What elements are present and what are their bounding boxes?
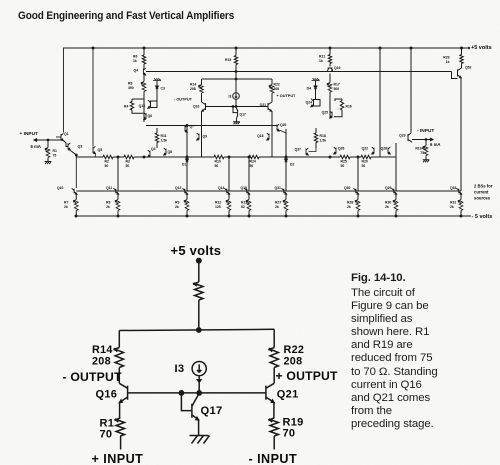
ground below R1 <box>47 158 49 162</box>
svg-text:C3: C3 <box>161 86 165 90</box>
transistor Q25 <box>330 111 332 118</box>
svg-text:+ INPUT: + INPUT <box>92 452 144 465</box>
svg-text:R9: R9 <box>175 201 179 205</box>
wire Q21 emitter down <box>273 402 275 418</box>
transistor Q13 with box <box>151 101 158 108</box>
node rail center junction <box>196 328 201 333</box>
wire mid bus y125 <box>146 125 277 127</box>
svg-text:Q24: Q24 <box>306 100 313 104</box>
svg-text:Q15: Q15 <box>241 186 248 190</box>
wire x330 to Q25 <box>329 92 331 118</box>
transistor Q29 <box>391 188 396 194</box>
transistor Q17 (top) <box>233 107 238 113</box>
svg-text:6 mA: 6 mA <box>31 144 42 149</box>
svg-text:Q13: Q13 <box>139 104 146 108</box>
transistor Q15 <box>244 188 249 194</box>
svg-text:Q12: Q12 <box>175 186 182 190</box>
wire +5V top rail <box>63 47 466 49</box>
svg-text:50: 50 <box>250 164 254 168</box>
wire x144 down to Q6 <box>143 92 145 123</box>
svg-text:R22: R22 <box>284 344 305 356</box>
transistor Q14 <box>224 188 229 194</box>
svg-text:Q7: Q7 <box>190 125 195 129</box>
svg-text:1,5k: 1,5k <box>320 138 327 142</box>
svg-text:+ OUTPUT: + OUTPUT <box>277 94 297 98</box>
wire Q17 emitter to ground <box>198 419 200 435</box>
wire R4 to Q6 base <box>132 110 143 113</box>
ground-flag above D3 <box>153 78 161 80</box>
transistor Q16 <box>119 383 127 401</box>
svg-text:1k: 1k <box>446 60 450 64</box>
resistor R17 500 <box>329 74 331 83</box>
wire R19 to input <box>273 436 275 450</box>
svg-text:62: 62 <box>241 205 245 209</box>
svg-text:50: 50 <box>215 164 219 168</box>
svg-text:R25: R25 <box>341 160 347 164</box>
svg-text:R19A: R19A <box>415 147 424 151</box>
svg-text:Q28: Q28 <box>381 146 388 150</box>
svg-text:R7: R7 <box>64 201 68 205</box>
svg-text:Q19: Q19 <box>334 66 341 70</box>
transistor Q8 <box>164 148 166 155</box>
wire Q16 emitter column <box>201 111 203 157</box>
node y157 bus dots <box>117 156 119 158</box>
svg-text:R6: R6 <box>133 55 137 59</box>
transistor Q7 <box>185 125 187 132</box>
wire inner box top edge <box>202 78 273 80</box>
svg-text:R14: R14 <box>92 344 113 356</box>
svg-text:208: 208 <box>274 87 280 91</box>
transistor Q10 <box>72 188 77 194</box>
ground symbol <box>190 436 210 444</box>
svg-text:R10: R10 <box>215 160 221 164</box>
svg-text:70: 70 <box>283 428 296 440</box>
transistor Q20 <box>277 124 279 131</box>
svg-text:- INPUT: - INPUT <box>249 452 298 465</box>
svg-text:50: 50 <box>105 164 109 168</box>
label -5 volts (bottom right) <box>468 215 471 217</box>
resistor R31 2k <box>460 194 462 199</box>
svg-text:1k: 1k <box>319 59 323 63</box>
svg-text:I3: I3 <box>229 94 232 98</box>
svg-text:R28: R28 <box>347 201 353 205</box>
svg-text:Q9: Q9 <box>203 134 208 138</box>
wire D3 down to Q13 <box>156 89 158 101</box>
svg-text:Q4: Q4 <box>151 147 156 151</box>
wire x396 column <box>395 143 397 191</box>
svg-text:+ INPUT: + INPUT <box>20 131 39 137</box>
svg-text:2k: 2k <box>106 205 110 209</box>
transistor Q9 <box>197 133 199 140</box>
wire x229 link <box>228 157 230 191</box>
wire R22 to Q21 <box>271 93 273 102</box>
node top-rail junction dots <box>92 47 94 49</box>
svg-text:208: 208 <box>284 356 303 368</box>
svg-text:Q21: Q21 <box>277 388 299 400</box>
svg-text:R18: R18 <box>320 134 326 138</box>
svg-text:2k: 2k <box>347 205 351 209</box>
resistor R7 2k <box>75 194 77 199</box>
wire x118 link <box>117 157 119 191</box>
diode D1 <box>186 157 188 159</box>
svg-text:Q25: Q25 <box>322 110 329 114</box>
resistor R8 390 <box>143 74 145 82</box>
wire D4 down to Q24 <box>315 89 317 100</box>
svg-text:+5 volts: +5 volts <box>471 45 492 51</box>
svg-text:R8: R8 <box>106 201 110 205</box>
node +5V terminal dot <box>196 258 201 263</box>
resistor R21 1k <box>329 48 331 55</box>
svg-text:Q3: Q3 <box>78 144 83 148</box>
wire R22 to Q21 <box>273 368 275 384</box>
svg-text:I3: I3 <box>175 363 185 375</box>
svg-text:+ OUTPUT: + OUTPUT <box>276 369 339 383</box>
transistor Q26 <box>334 147 336 154</box>
svg-text:Q14: Q14 <box>218 186 225 190</box>
svg-text:Q4: Q4 <box>134 69 139 73</box>
svg-text:50: 50 <box>126 164 130 168</box>
svg-text:R24: R24 <box>250 160 256 164</box>
svg-text:current: current <box>474 189 489 194</box>
transistor Q21 <box>266 383 274 401</box>
node bottom-rail junction dots <box>75 215 77 217</box>
resistor R27 2k <box>285 194 287 199</box>
resistor R4 <box>131 99 133 102</box>
svg-text:Q20: Q20 <box>280 123 287 127</box>
transistor Q24 with box <box>314 100 321 107</box>
transistor Q30 <box>353 188 358 194</box>
svg-text:Q30: Q30 <box>344 186 351 190</box>
wire x286 link <box>285 129 287 191</box>
resistor R20 50 <box>361 155 371 158</box>
svg-text:+5 volts: +5 volts <box>171 243 222 258</box>
wire right branch upper <box>273 329 275 347</box>
svg-text:Q1: Q1 <box>64 132 69 136</box>
svg-text:D2: D2 <box>290 163 294 167</box>
svg-text:D1: D1 <box>182 163 186 167</box>
transistor Q31 <box>281 188 286 194</box>
svg-text:R27: R27 <box>275 201 281 205</box>
wire x187 link <box>186 126 188 158</box>
svg-text:R19: R19 <box>283 416 304 428</box>
svg-text:R8: R8 <box>128 81 132 85</box>
svg-text:2k: 2k <box>175 205 179 209</box>
svg-text:Q16: Q16 <box>96 388 118 400</box>
resistor R22 208 <box>270 348 278 368</box>
wire Q21 emitter column <box>271 111 273 157</box>
wire Q4 base rail y72 <box>146 71 452 73</box>
svg-text:Q8: Q8 <box>168 150 173 154</box>
wire resistor to rail <box>198 300 200 331</box>
page running head <box>18 10 234 22</box>
figure caption <box>351 272 447 432</box>
transistor Q23 <box>408 133 412 142</box>
svg-text:208: 208 <box>190 87 196 91</box>
label +5 volts (top right) <box>466 47 470 49</box>
svg-text:R4: R4 <box>124 104 128 108</box>
node base-bus left dot <box>179 391 184 396</box>
svg-text:75: 75 <box>53 154 57 158</box>
svg-text:Q6: Q6 <box>148 114 153 118</box>
svg-text:Q31: Q31 <box>275 186 282 190</box>
diode D4 <box>315 81 317 85</box>
svg-text:Q37: Q37 <box>295 147 302 151</box>
transistor Q6 <box>144 113 146 120</box>
svg-text:Q5: Q5 <box>98 148 103 152</box>
wire +5V down <box>198 263 200 283</box>
svg-text:75: 75 <box>420 151 424 155</box>
transistor Q5 <box>93 146 95 153</box>
resistor R11 1.5k <box>156 128 158 133</box>
transistor Q4 (upper) <box>143 64 145 69</box>
wire y191 bus <box>76 190 461 192</box>
wire left branch upper <box>118 331 120 348</box>
ground below R19A <box>425 156 427 160</box>
svg-text:R20: R20 <box>362 160 368 164</box>
transistor Q1 <box>61 133 63 140</box>
transistor Q18 <box>267 133 269 140</box>
svg-text:- OUTPUT: - OUTPUT <box>174 97 193 101</box>
transistor Q11 <box>113 188 118 194</box>
transistor Q22 <box>372 147 374 154</box>
svg-text:Q22: Q22 <box>362 146 369 150</box>
current source I3 (top) <box>233 93 240 100</box>
svg-text:R21: R21 <box>319 55 325 59</box>
wire -5V bottom rail <box>75 215 468 217</box>
wire box base line <box>206 106 269 108</box>
wire right input lead with arrow <box>412 139 432 141</box>
svg-text:D4: D4 <box>307 86 311 90</box>
svg-text:Q23: Q23 <box>399 134 406 138</box>
transistor Q17 <box>192 394 199 419</box>
svg-text:Q52: Q52 <box>465 66 472 70</box>
resistor R1 75 (input, top) <box>47 140 49 148</box>
svg-text:Q21: Q21 <box>260 103 267 107</box>
wire left border <box>63 48 65 133</box>
transistor Q37 <box>306 148 308 155</box>
svg-text:208: 208 <box>92 356 111 368</box>
resistor R22 208 (top) <box>271 79 273 85</box>
svg-text:500: 500 <box>334 87 340 91</box>
wire R14 to Q16 <box>118 368 120 384</box>
svg-text:125: 125 <box>215 205 221 209</box>
resistor R14 208 (top) <box>201 79 203 85</box>
svg-text:sources: sources <box>474 195 491 200</box>
resistor R29 1k <box>461 48 463 55</box>
transistor Q4 lower <box>148 150 150 157</box>
wire x93 column <box>92 48 94 147</box>
wire x249 link <box>248 157 250 191</box>
current source I3 <box>192 362 206 376</box>
resistor R24 50 <box>249 155 259 158</box>
svg-text:2k: 2k <box>64 205 68 209</box>
svg-text:R11: R11 <box>161 134 167 138</box>
transistor Q21 (top) <box>268 102 272 111</box>
svg-text:2k: 2k <box>275 205 279 209</box>
svg-text:R16: R16 <box>346 104 352 108</box>
svg-text:Q17: Q17 <box>201 405 223 417</box>
ground below Q17 (top) <box>236 118 238 121</box>
wire R1 to input <box>120 436 122 450</box>
resistor R2 50 <box>103 155 113 158</box>
wire x380 column <box>379 48 381 157</box>
capacitor C3 / diode D3 <box>156 81 158 85</box>
svg-text:Q17: Q17 <box>240 113 247 117</box>
svg-text:6 mA: 6 mA <box>430 142 441 147</box>
resistor R10 50 <box>214 155 224 158</box>
transistor Q3 with base box <box>64 141 68 147</box>
svg-text:2 BSs for: 2 BSs for <box>474 183 493 188</box>
node input/R1 junction <box>47 139 49 141</box>
resistor R12 125 <box>228 194 230 199</box>
wire R16 to Q25 <box>334 110 342 117</box>
resistor R1 70 <box>116 418 124 436</box>
resistor R18 1.5k <box>315 128 317 133</box>
transistor Q16 (top) <box>202 102 206 111</box>
resistor R3 50 <box>124 155 134 158</box>
resistor R19A 75 <box>425 140 427 146</box>
ground-flag above D4 <box>312 78 320 80</box>
wire x411 column <box>410 48 412 133</box>
svg-text:Q16: Q16 <box>193 105 200 109</box>
resistor bias (unlabeled) <box>195 282 203 300</box>
wire x358 link <box>357 157 359 191</box>
svg-text:R15: R15 <box>225 58 231 62</box>
svg-text:50: 50 <box>362 164 366 168</box>
transistor Q12 <box>182 188 187 194</box>
wire top horizontal rail <box>119 329 274 330</box>
wire y157 bus segments <box>76 156 103 158</box>
wire I3 to node <box>235 99 237 106</box>
svg-text:R29: R29 <box>443 56 449 60</box>
resistor R28 2k <box>357 194 359 199</box>
wire Q17 base loop <box>181 393 192 411</box>
svg-text:Q33: Q33 <box>450 186 457 190</box>
wire R14 to Q16 <box>201 93 203 102</box>
resistor R8 2k <box>117 194 119 199</box>
svg-text:R13: R13 <box>241 201 247 205</box>
svg-text:- INPUT: - INPUT <box>417 128 434 134</box>
wire input to Q1 base <box>56 136 61 138</box>
node base-bus right dot <box>197 391 202 396</box>
wire base bus <box>128 392 266 394</box>
wire x461 long column <box>460 78 462 191</box>
svg-text:R31: R31 <box>450 201 456 205</box>
svg-text:R30: R30 <box>385 201 391 205</box>
wire + input lead with arrow <box>36 139 62 141</box>
svg-text:2k: 2k <box>450 205 454 209</box>
wire I3 to bus with arrow <box>198 376 200 393</box>
wire Q16 emitter down <box>119 402 121 418</box>
transistor Q19 <box>329 64 331 67</box>
resistor R25 50 <box>340 155 350 158</box>
svg-text:1k: 1k <box>133 59 137 63</box>
svg-text:R12: R12 <box>215 201 221 205</box>
svg-text:2k: 2k <box>385 205 389 209</box>
resistor R16 <box>341 99 343 101</box>
svg-text:R1: R1 <box>100 417 115 429</box>
resistor R14 208 <box>115 348 123 368</box>
wire Q52 base step <box>452 72 458 79</box>
svg-text:Q11: Q11 <box>106 186 112 190</box>
svg-text:- OUTPUT: - OUTPUT <box>63 370 123 384</box>
resistor R19 70 <box>270 418 278 436</box>
transistor Q28 <box>388 147 390 154</box>
svg-text:Q26: Q26 <box>338 146 345 150</box>
svg-text:R2: R2 <box>105 160 109 164</box>
svg-text:50: 50 <box>341 164 345 168</box>
wire column x76 down <box>75 157 77 188</box>
diode D2 <box>285 157 287 159</box>
svg-text:R1: R1 <box>53 149 57 153</box>
wire R15 down to box <box>235 65 237 93</box>
svg-text:390: 390 <box>128 86 134 90</box>
resistor R9 2k <box>186 194 188 199</box>
svg-text:R3: R3 <box>126 160 130 164</box>
resistor R30 2k <box>395 194 397 199</box>
svg-text:- 5 volts: - 5 volts <box>472 214 493 220</box>
svg-text:70: 70 <box>100 429 113 441</box>
svg-text:1,5k: 1,5k <box>161 138 168 142</box>
wire Q3 emitter to junction <box>71 151 77 157</box>
svg-text:Q10: Q10 <box>57 186 64 190</box>
svg-text:Q29: Q29 <box>385 186 392 190</box>
transistor Q52 <box>461 64 463 69</box>
resistor R6 1k <box>143 48 145 55</box>
svg-text:Q18: Q18 <box>257 134 264 138</box>
resistor R15 <box>235 48 237 56</box>
resistor R13 62 <box>248 194 250 199</box>
transistor Q33 <box>456 188 461 194</box>
